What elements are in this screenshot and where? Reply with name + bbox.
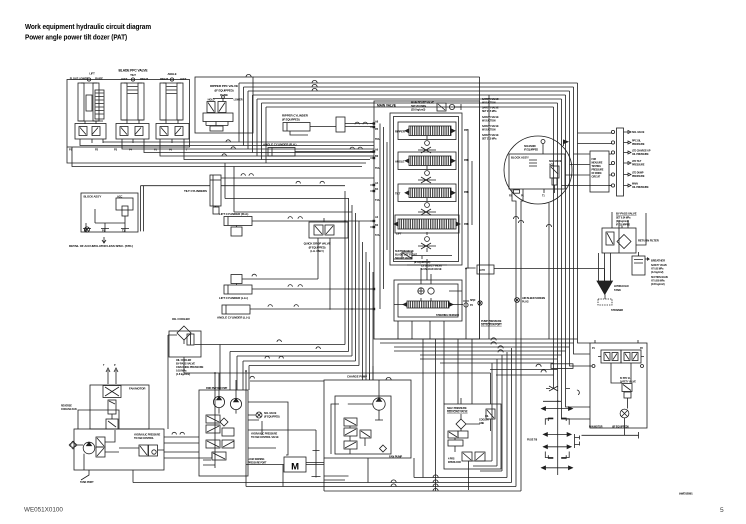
engine fan pump box [61,405,164,471]
svg-text:COOLING FAN: COOLING FAN [61,408,77,411]
steering demand section [394,280,462,321]
PPC unit 3 body [156,124,189,144]
accumulator detail box [81,193,138,233]
svg-text:((IF EQUIPPED)): ((IF EQUIPPED)) [612,426,629,429]
svg-text:BLADE PPC VALVE: BLADE PPC VALVE [119,69,149,73]
svg-text:ANGLE: ANGLE [168,72,177,76]
fuse assembly [527,380,573,475]
lower horizontal bundle [380,339,578,363]
svg-text:0.18 MPa: 0.18 MPa [176,369,187,373]
svg-text:DETAIL OF ACCUMULATOR LESS SPE: DETAIL OF ACCUMULATOR LESS SPEC. (STD.) [69,244,133,248]
svg-text:& UNLOAD VALVE: & UNLOAD VALVE [421,268,442,271]
svg-text:STRAINER: STRAINER [611,309,623,312]
oil cooler wires [168,334,491,468]
lift actuator [418,232,436,249]
svg-text:LIFT CYLINDER (R.H.): LIFT CYLINDER (R.H.) [219,212,248,216]
svg-text:T6A: T6A [375,167,380,170]
short L wires right of reducing valve [469,355,503,471]
svg-text:PRESSURE: PRESSURE [632,175,645,178]
angle actuator [418,166,436,183]
svg-text:LOWER: LOWER [234,99,243,102]
air bleed plug [515,297,546,304]
svg-text:SOL VALVE: SOL VALVE [632,131,645,134]
wires to test ports [562,133,612,186]
svg-text:TILT CYLINDERS: TILT CYLINDERS [184,189,207,193]
mid vertical bundle [220,191,373,390]
svg-text:{210 kg/cm2}: {210 kg/cm2} [411,109,425,112]
svg-text:RETURN FILTER: RETURN FILTER [638,239,659,243]
svg-text:OF MODE: OF MODE [592,173,603,175]
tilt spool [395,184,456,202]
svg-text:TANK PORT: TANK PORT [80,481,94,484]
wire bundle top runs [239,83,578,107]
svg-text:RIPPER PPC VALVE: RIPPER PPC VALVE [210,84,238,88]
lift RH wires [260,220,374,222]
lift cylinder LH [219,274,318,300]
drain plug symbol [478,301,482,305]
svg-text:IF EQUIPPED: IF EQUIPPED [524,149,538,152]
svg-text:CIRCUIT: CIRCUIT [592,177,601,179]
svg-text:T4A: T4A [375,199,380,202]
svg-text:LOAD SENSING: LOAD SENSING [248,458,265,461]
wires PPC area to mid bundle [141,163,353,231]
tank piping [599,213,647,281]
svg-text:PLUG: PLUG [522,301,529,304]
hst to charge pump wires [248,402,316,455]
wire jumps on bundle [312,80,317,91]
svg-text:OIL PRESSURE: OIL PRESSURE [632,186,649,189]
pump pressure detection label [481,320,502,327]
PPC unit 1 levers [78,78,104,124]
lift LH wires [260,288,374,290]
svg-text:OIL PRESSURE: OIL PRESSURE [632,153,649,156]
svg-text:TESTING: TESTING [592,166,602,168]
svg-text:TO FAN CONTROL: TO FAN CONTROL [134,437,154,440]
PPC cluster frame [67,80,190,148]
detail pointer arrow [84,227,89,232]
svg-text:{0.05 kg/cm2}: {0.05 kg/cm2} [651,284,665,286]
svg-text:TILT: TILT [395,192,401,196]
title text [25,22,151,41]
svg-text:REDUCING VALVE: REDUCING VALVE [447,411,468,414]
lower internal wires of main valve [394,248,476,339]
svg-text:SET 27.5 MPa: SET 27.5 MPa [482,110,497,113]
svg-text:(IF EQUIPPED): (IF EQUIPPED) [264,416,280,419]
svg-text:BLOCK ASS'Y: BLOCK ASS'Y [511,156,529,160]
svg-text:T8A: T8A [375,138,380,141]
svg-text:(IF EQUIPPED): (IF EQUIPPED) [309,246,326,250]
svg-text:(IF EQUIPPED): (IF EQUIPPED) [282,118,300,122]
test block [590,151,609,192]
svg-text:RIPPER CYLINDER: RIPPER CYLINDER [282,114,309,118]
svg-text:bWE02891: bWE02891 [679,492,693,496]
svg-text:Work equipment hydraulic circu: Work equipment hydraulic circuit diagram [25,22,151,31]
tilt cylinder [184,175,221,214]
main valve right port labels [464,129,469,226]
svg-text:FWD PMP REV PMP: FWD PMP REV PMP [206,387,228,390]
ripper cyl check block [336,117,345,132]
svg-text:TILT: TILT [130,73,136,77]
tilt actuator [418,198,436,215]
footer drawing number [24,507,63,514]
svg-text:QUICK DROP VALVE: QUICK DROP VALVE [304,242,331,246]
svg-text:ANGLE CYLINDER (L.H.): ANGLE CYLINDER (L.H.) [217,316,250,320]
svg-text:W/ SUCTION: W/ SUCTION [482,102,496,105]
svg-text:BY-PASS VALVE: BY-PASS VALVE [176,362,195,366]
svg-text:LEFT: LEFT [180,77,187,81]
breather [632,252,669,286]
svg-text:MEASURE: MEASURE [592,162,603,165]
ripper spool [395,122,456,140]
svg-text:W/ SUCTION: W/ SUCTION [482,129,496,132]
svg-text:SET 27.5 MPa: SET 27.5 MPa [482,138,497,141]
LS select valve row [402,252,494,274]
PPC unit 1 body [75,124,106,144]
svg-text:FUSE 7/8: FUSE 7/8 [527,439,538,442]
svg-text:TANK: TANK [614,288,621,292]
svg-text:OIL COOLER: OIL COOLER [172,317,191,321]
junction rect [551,364,573,369]
svg-text:TO FAN CONTROL VALVE: TO FAN CONTROL VALVE [251,436,279,439]
svg-text:P8B: P8B [464,223,469,226]
svg-text:5: 5 [720,507,724,514]
check valve SP [463,298,476,312]
lift cylinder RH [219,212,260,236]
svg-text:WE051X0100: WE051X0100 [24,507,63,514]
PPC unit 2 body [116,124,149,144]
svg-text:MAIN VALVE: MAIN VALVE [377,104,397,108]
connection dots [214,184,558,402]
svg-text:(L.H. ONLY): (L.H. ONLY) [310,249,323,253]
svg-text:FAN MOTOR: FAN MOTOR [129,387,146,391]
main valve internal port lines [380,95,489,339]
right text block [482,98,499,141]
svg-text:CHARGE PUMP: CHARGE PUMP [347,375,367,379]
bottom small code [248,458,267,464]
svg-text:RIPPER: RIPPER [395,130,405,134]
by-pass valve label [616,212,637,227]
bundle corners into travel box [562,338,593,419]
M wires [246,430,324,478]
block assy circle callout [504,136,572,204]
svg-text:DETECTION PORT: DETECTION PORT [481,324,502,327]
wires below circle callout [512,193,549,491]
footer page number [720,507,724,514]
wire jumps lower bundle [491,338,503,353]
svg-text:M: M [291,462,299,473]
charge pump block [324,375,411,483]
main valve outer box [374,101,480,339]
svg-text:P8B: P8B [464,191,469,194]
ripper PPC valve enclosure [195,77,253,133]
fuse feed wires [490,369,558,375]
svg-text:LINE: LINE [479,422,485,425]
svg-text:STEERING DEMAND: STEERING DEMAND [436,314,459,317]
hydraulic tank [597,281,629,312]
ripper cylinder [282,114,318,136]
tank port [80,481,94,484]
fan motor pilot lines [108,370,116,384]
angle LH wires [258,308,374,310]
angle cylinder RH [263,143,303,157]
svg-text:W/ SUCTION: W/ SUCTION [482,120,496,123]
svg-text:PRESSURE: PRESSURE [632,164,645,167]
svg-text:{0.2 kg/cm2}: {0.2 kg/cm2} [651,272,664,274]
sol valve [256,412,280,419]
svg-text:CRACKING PRESSURE: CRACKING PRESSURE [176,365,204,369]
svg-text:FOR: FOR [592,159,597,161]
wire jumps under ripper box [222,140,235,156]
angle spool [395,152,456,170]
svg-text:SP(D: SP(D [470,299,476,302]
long bottom lines [133,348,521,491]
main valve inner frames [390,113,462,265]
svg-text:LIFT: LIFT [396,232,402,236]
HST pump block [199,373,248,476]
svg-text:ANGLE CYLINDER (R.H.): ANGLE CYLINDER (R.H.) [263,143,297,147]
travel box long line [582,432,639,439]
lift spool [394,215,460,236]
ripper cyl wires [318,124,374,127]
test port manifold [611,128,631,196]
svg-text:BREATHER: BREATHER [651,259,665,263]
suction valve labels [395,250,430,264]
ripper actuator [418,136,436,153]
svg-text:RIGHT: RIGHT [160,77,168,81]
svg-text:LIFT: LIFT [89,72,95,76]
wire bundle right falls [554,83,578,362]
svg-text:PRESSURE: PRESSURE [632,143,645,146]
svg-text:(IF EQUIPPED): (IF EQUIPPED) [215,89,234,93]
svg-text:L8 T8: L8 T8 [479,269,486,272]
quick drop valve [304,218,348,310]
angle RH wires [303,151,374,153]
svg-text:AT 0.005 MPa: AT 0.005 MPa [651,280,665,283]
mid-bottom risers [324,366,373,480]
svg-text:BLOCK ASS'Y: BLOCK ASS'Y [84,195,102,199]
main valve left port stubs [370,124,374,310]
svg-text:ANGLE: ANGLE [395,160,405,164]
fan motor enclosure [90,385,149,429]
svg-text:T2A: T2A [375,234,380,237]
travel junction box [589,340,647,435]
svg-text:P8B: P8B [464,159,469,162]
test port labels [632,131,651,189]
PPC port labels [69,148,188,152]
blade PPC valve labels [70,69,187,82]
svg-text:LEFT: LEFT [121,77,128,81]
svg-text:SAFETY VALVE: SAFETY VALVE [620,381,636,384]
svg-text:RIGHT: RIGHT [140,77,148,81]
svg-text:Power angle power tilt dozer (: Power angle power tilt dozer (PAT) [25,32,128,41]
svg-text:BY-PASS VALVE: BY-PASS VALVE [616,212,637,216]
svg-text:SUCTION VALVE: SUCTION VALVE [651,276,669,279]
wire: top line with jump [246,74,480,339]
svg-text:SAFETY VALVE: SAFETY VALVE [651,264,667,267]
svg-text:FAN MOTOR: FAN MOTOR [589,426,603,429]
svg-text:LIFT CYLINDER (L.H.): LIFT CYLINDER (L.H.) [219,296,248,300]
left-bottom connector wires [78,410,212,458]
svg-text:AT 0.02 MPa: AT 0.02 MPa [651,268,664,271]
svg-text:HYDRAULIC: HYDRAULIC [614,284,629,288]
svg-text:B: PPC VL: B: PPC VL [620,378,631,380]
PPC unit 3 levers [160,78,183,124]
main relief valve [411,102,461,112]
svg-text:FAN PUMP: FAN PUMP [389,455,402,459]
wire bundle left risers [239,83,266,163]
detail caption [69,244,133,248]
svg-text:PRESSURE: PRESSURE [592,170,604,172]
PPC unit 2 levers [121,78,144,124]
fan control labels [251,433,279,440]
self pressure reducing valve block [444,398,501,490]
svg-text:HOLD: HOLD [208,99,215,102]
svg-text:P8B: P8B [464,129,469,132]
return filter [602,228,659,253]
angle cylinder LH [217,305,258,320]
wires PPC bodies to risers [67,142,374,167]
coupler symbols right of fuse [575,434,580,448]
svg-text:INTERLOCK: INTERLOCK [448,461,461,464]
tilt cylinder wires [221,177,374,179]
M motor box [284,457,306,473]
svg-text:PRESSURE PORT: PRESSURE PORT [248,462,267,464]
oil cooler [169,317,204,376]
